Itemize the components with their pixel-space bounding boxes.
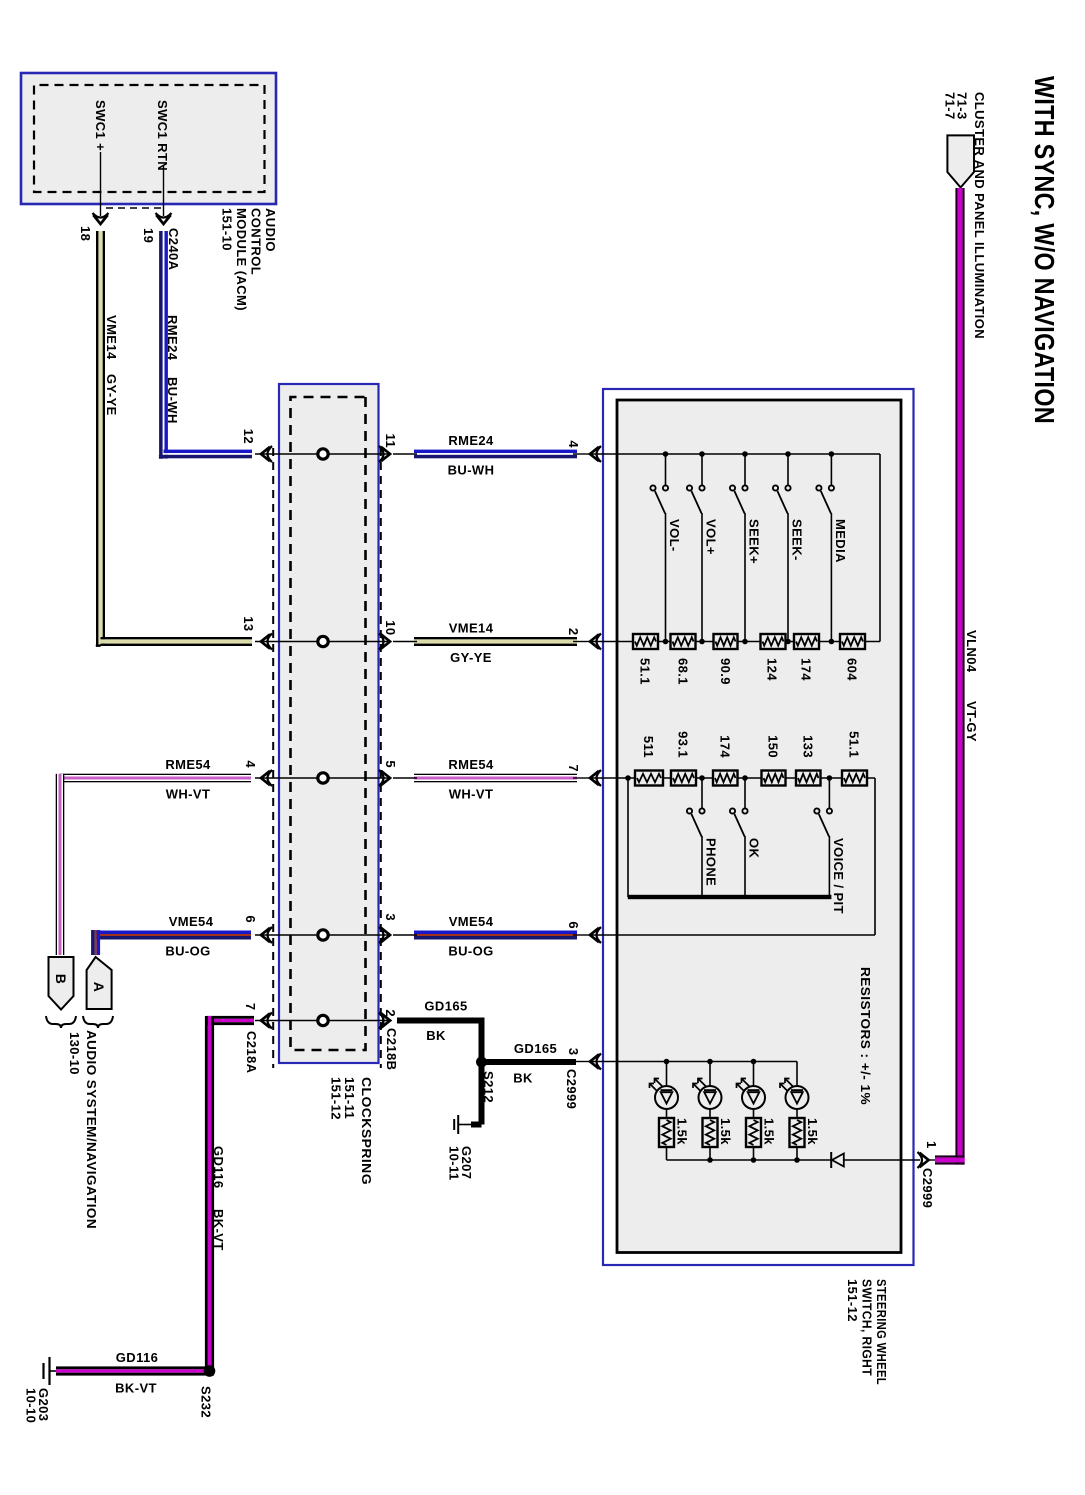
svg-text:GY-YE: GY-YE xyxy=(104,374,119,416)
svg-text:A: A xyxy=(91,982,107,993)
svg-text:151-12: 151-12 xyxy=(845,1279,860,1322)
svg-text:51.1: 51.1 xyxy=(638,658,653,685)
svg-text:13: 13 xyxy=(241,616,256,631)
svg-text:SWITCH, RIGHT: SWITCH, RIGHT xyxy=(860,1279,875,1376)
svg-text:151-10: 151-10 xyxy=(220,208,235,251)
svg-text:GD116: GD116 xyxy=(116,1350,158,1365)
svg-text:BK-VT: BK-VT xyxy=(115,1381,157,1396)
svg-text:WH-VT: WH-VT xyxy=(166,787,211,802)
svg-text:VME54: VME54 xyxy=(449,914,494,929)
svg-text:MODULE (ACM): MODULE (ACM) xyxy=(234,208,249,311)
svg-text:130-10: 130-10 xyxy=(67,1032,82,1075)
svg-text:BK: BK xyxy=(513,1071,533,1086)
svg-text:93.1: 93.1 xyxy=(676,731,691,758)
svg-text:10-10: 10-10 xyxy=(24,1388,39,1423)
svg-text:604: 604 xyxy=(845,658,860,681)
svg-text:18: 18 xyxy=(78,226,93,241)
svg-text:SWC1 RTN: SWC1 RTN xyxy=(155,100,170,171)
svg-text:1.5k: 1.5k xyxy=(718,1118,733,1145)
svg-text:10-11: 10-11 xyxy=(447,1146,462,1181)
svg-text:BU-OG: BU-OG xyxy=(448,944,493,959)
svg-text:CONTROL: CONTROL xyxy=(249,208,264,275)
svg-text:B: B xyxy=(53,974,69,985)
svg-text:12: 12 xyxy=(241,429,256,444)
svg-text:BU-WH: BU-WH xyxy=(448,463,495,478)
svg-text:C218A: C218A xyxy=(244,1031,259,1074)
svg-text:VT-GY: VT-GY xyxy=(964,701,979,742)
svg-text:VOL+: VOL+ xyxy=(704,519,719,555)
svg-text:RME54: RME54 xyxy=(165,757,211,772)
svg-text:19: 19 xyxy=(141,228,156,243)
svg-text:68.1: 68.1 xyxy=(676,658,691,685)
svg-text:10: 10 xyxy=(383,620,398,635)
svg-text:VOL-: VOL- xyxy=(667,519,682,552)
svg-text:SEEK+: SEEK+ xyxy=(747,519,762,564)
svg-text:BU-OG: BU-OG xyxy=(165,944,210,959)
svg-text:174: 174 xyxy=(718,735,733,758)
svg-text:BK: BK xyxy=(426,1028,446,1043)
svg-text:VOICE / PIT: VOICE / PIT xyxy=(831,838,846,914)
svg-text:CLUSTER AND PANEL ILLUMINATION: CLUSTER AND PANEL ILLUMINATION xyxy=(972,92,987,339)
svg-text:AUDIO: AUDIO xyxy=(263,208,278,252)
svg-text:7: 7 xyxy=(243,1003,258,1011)
svg-text:5: 5 xyxy=(383,760,398,768)
svg-text:6: 6 xyxy=(243,915,258,923)
svg-text:AUDIO SYSTEM/NAVIGATION: AUDIO SYSTEM/NAVIGATION xyxy=(84,1030,99,1229)
svg-text:174: 174 xyxy=(799,658,814,681)
svg-text:S232: S232 xyxy=(199,1386,214,1418)
svg-text:RME54: RME54 xyxy=(448,757,494,772)
svg-text:GD165: GD165 xyxy=(514,1041,557,1056)
svg-text:3: 3 xyxy=(383,913,398,921)
svg-text:151-12: 151-12 xyxy=(329,1077,344,1120)
svg-text:VME14: VME14 xyxy=(104,315,119,360)
svg-text:1.5k: 1.5k xyxy=(762,1118,777,1145)
svg-text:BK-VT: BK-VT xyxy=(211,1209,226,1251)
svg-text:GD165: GD165 xyxy=(424,999,467,1014)
svg-text:51.1: 51.1 xyxy=(847,731,862,758)
svg-text:BU-WH: BU-WH xyxy=(165,377,180,424)
svg-text:3: 3 xyxy=(566,1048,581,1056)
svg-text:SWC1 +: SWC1 + xyxy=(93,100,108,151)
svg-text:1.5k: 1.5k xyxy=(675,1118,690,1145)
svg-text:133: 133 xyxy=(801,735,816,758)
svg-text:90.9: 90.9 xyxy=(718,658,733,685)
svg-text:MEDIA: MEDIA xyxy=(833,519,848,563)
svg-text:RME24: RME24 xyxy=(448,433,494,448)
svg-text:WITH SYNC, W/O NAVIGATION: WITH SYNC, W/O NAVIGATION xyxy=(1029,76,1060,424)
svg-text:GD116: GD116 xyxy=(211,1146,226,1188)
svg-text:C218B: C218B xyxy=(384,1028,399,1070)
svg-text:RME24: RME24 xyxy=(165,315,180,361)
svg-text:4: 4 xyxy=(243,760,258,768)
svg-text:SEEK-: SEEK- xyxy=(790,519,805,561)
svg-text:1.5k: 1.5k xyxy=(805,1118,820,1145)
svg-text:150: 150 xyxy=(766,735,781,758)
svg-text:VLN04: VLN04 xyxy=(964,630,979,673)
svg-text:C2999: C2999 xyxy=(920,1168,935,1208)
svg-text:11: 11 xyxy=(383,433,398,448)
svg-text:2: 2 xyxy=(566,628,581,636)
svg-text:1: 1 xyxy=(924,1141,939,1149)
svg-text:CLOCKSPRING: CLOCKSPRING xyxy=(359,1077,374,1185)
svg-text:4: 4 xyxy=(566,440,581,448)
svg-text:PHONE: PHONE xyxy=(704,838,719,886)
svg-text:71-7: 71-7 xyxy=(943,92,958,120)
svg-text:6: 6 xyxy=(566,921,581,929)
svg-text:C240A: C240A xyxy=(166,228,181,271)
svg-text:C2999: C2999 xyxy=(564,1069,579,1109)
svg-text:RESISTORS : +/- 1%: RESISTORS : +/- 1% xyxy=(858,967,873,1105)
svg-text:S212: S212 xyxy=(481,1071,496,1103)
svg-text:GY-YE: GY-YE xyxy=(450,650,492,665)
svg-text:VME54: VME54 xyxy=(169,914,214,929)
svg-text:OK: OK xyxy=(747,838,762,859)
svg-text:7: 7 xyxy=(566,764,581,772)
svg-text:STEERING WHEEL: STEERING WHEEL xyxy=(874,1279,889,1385)
svg-text:WH-VT: WH-VT xyxy=(449,787,494,802)
svg-text:VME14: VME14 xyxy=(449,621,494,636)
svg-text:124: 124 xyxy=(765,658,780,681)
svg-text:511: 511 xyxy=(641,736,656,758)
